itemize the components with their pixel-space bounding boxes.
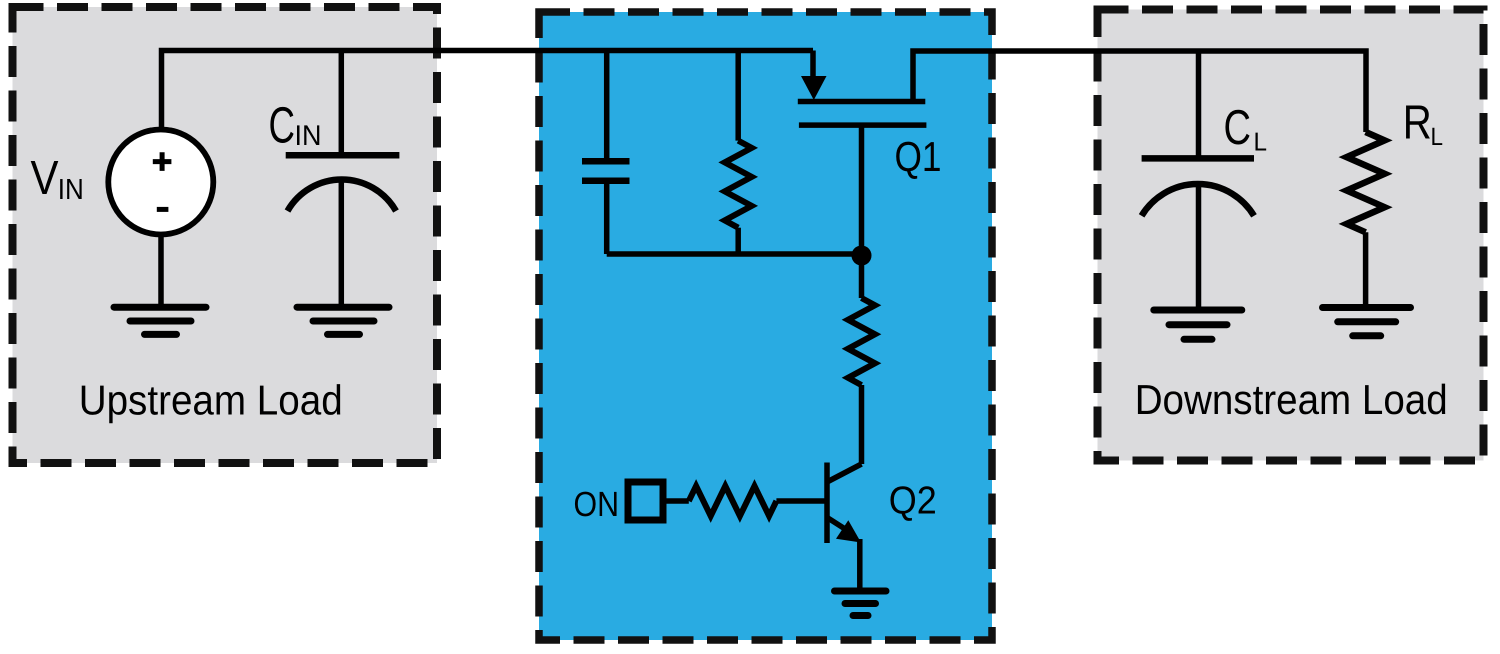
voltage source VIN <box>108 130 213 235</box>
wire: base resistor to Q2 base <box>776 498 824 504</box>
wire: CL to ground <box>1196 186 1202 309</box>
svg-text:IN: IN <box>295 120 322 152</box>
wire: CIN to ground <box>339 181 345 306</box>
svg-text:R: R <box>1403 97 1432 150</box>
box: Upstream Load region <box>13 7 438 463</box>
capacitor (gate, in switch block) <box>582 158 630 165</box>
svg-text:IN: IN <box>58 174 84 206</box>
svg-text:Downstream Load: Downstream Load <box>1135 376 1448 423</box>
resistor (gate pull-up) <box>725 141 752 228</box>
ground (under CIN) <box>297 307 389 334</box>
Q2 emitter arrowhead <box>836 520 861 542</box>
wire: node to divider resistor <box>859 256 865 299</box>
svg-text:C: C <box>269 97 296 154</box>
svg-text:L: L <box>1254 127 1268 157</box>
wire: divider resistor to Q2 collector <box>859 385 865 464</box>
resistor RL <box>1347 132 1385 232</box>
ground (under CL) <box>1154 310 1242 339</box>
Q2 base bar <box>824 463 830 544</box>
wire: tap to gate capacitor <box>604 51 610 159</box>
wire: tap to gate resistor <box>735 51 741 141</box>
wire: top rail from VIN to Q1 source <box>162 51 814 131</box>
capacitor CL <box>1142 155 1254 162</box>
ON input square <box>628 482 663 520</box>
wire: Q1 gate to node <box>859 125 865 256</box>
wire: RL to ground <box>1363 232 1369 306</box>
svg-text:V: V <box>31 152 59 205</box>
wire: VIN to ground <box>158 234 164 306</box>
svg-text:C: C <box>1224 101 1252 155</box>
Q1 channel bar <box>798 99 926 105</box>
node (gate junction) <box>852 246 872 266</box>
ground (under VIN) <box>114 307 206 334</box>
box: Downstream Load region <box>1098 10 1484 461</box>
resistor (gate divider) <box>848 298 875 385</box>
svg-text:ON: ON <box>574 485 620 524</box>
wire: gate resistor to bottom rail <box>735 228 741 254</box>
wire: top rail from Q1 drain to RL <box>913 51 1366 132</box>
box: power-switch (blue) region <box>539 12 992 640</box>
ground (Q2 emitter) <box>835 591 887 616</box>
svg-text:Upstream Load: Upstream Load <box>79 376 343 423</box>
ground (under RL) <box>1323 308 1411 336</box>
wire: Q2 emitter to ground <box>857 539 863 590</box>
resistor (base) <box>689 486 777 516</box>
wire: top rail tap to CL <box>1196 51 1202 156</box>
svg-text:Q2: Q2 <box>889 480 937 523</box>
svg-text:Q1: Q1 <box>895 133 942 180</box>
wire: bottom rail to node <box>607 251 862 257</box>
Q2 emitter diagonal <box>827 517 846 529</box>
wire: ON square to base resistor <box>666 498 688 504</box>
svg-text:L: L <box>1431 123 1444 151</box>
Q1 source arrow <box>801 76 827 100</box>
wire: top rail tap to CIN <box>339 51 345 155</box>
Q2 collector diagonal <box>827 464 862 482</box>
Q1 source wire <box>810 51 816 81</box>
capacitor CIN <box>286 152 400 159</box>
wire: gate capacitor to bottom rail <box>604 184 610 255</box>
Q1 gate bar <box>799 122 927 128</box>
